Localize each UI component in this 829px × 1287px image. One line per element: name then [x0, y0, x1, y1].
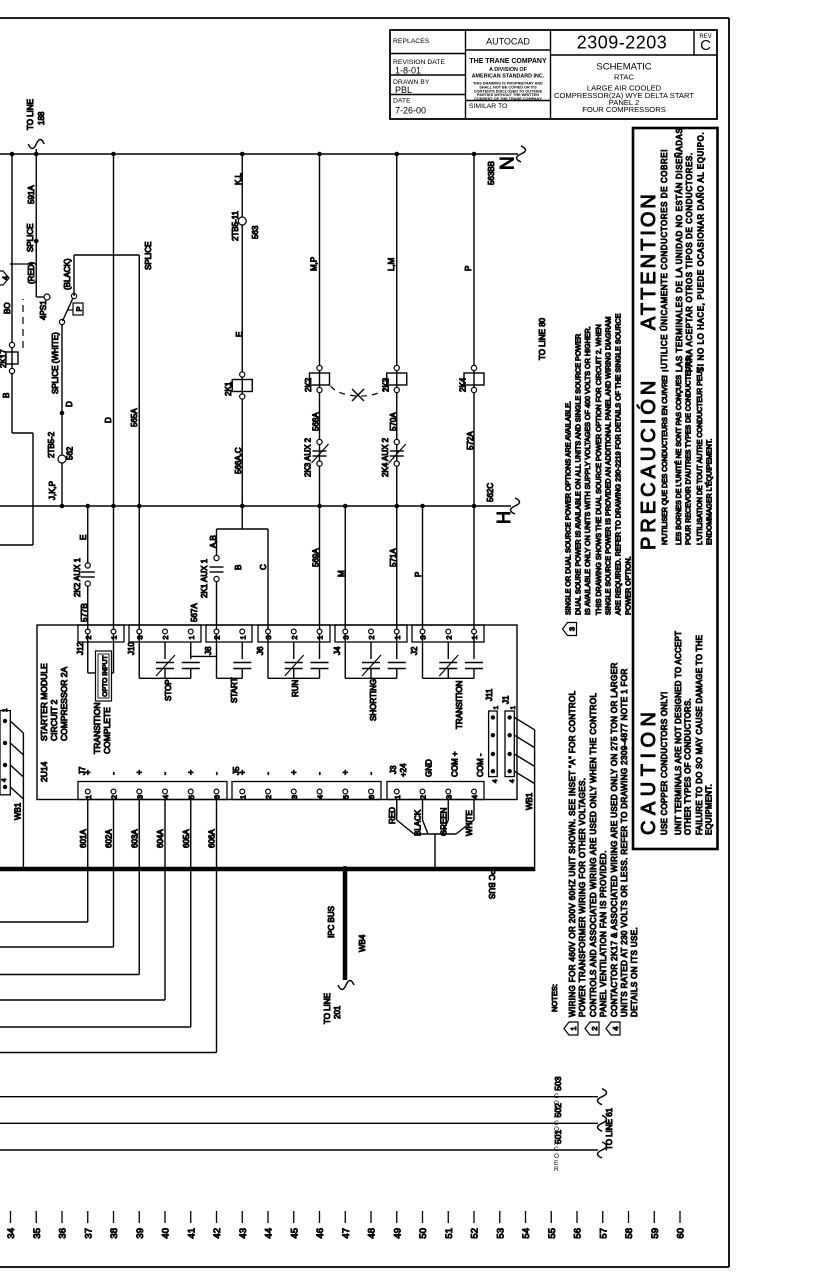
svg-text:SCHEMATIC: SCHEMATIC — [596, 62, 651, 73]
svg-text:AMERICAN STANDARD INC.: AMERICAN STANDARD INC. — [472, 74, 545, 80]
svg-text:C: C — [700, 37, 711, 54]
svg-text:SIMILAR TO: SIMILAR TO — [469, 103, 507, 110]
svg-text:2309-2203: 2309-2203 — [577, 33, 668, 53]
svg-text:A DIVISION OF: A DIVISION OF — [489, 67, 528, 73]
svg-text:REPLACES: REPLACES — [393, 38, 430, 45]
svg-text:7-26-00: 7-26-00 — [395, 106, 426, 116]
svg-text:DATE: DATE — [393, 98, 411, 105]
svg-text:RTAC: RTAC — [614, 73, 634, 82]
svg-text:AUTOCAD: AUTOCAD — [486, 37, 530, 47]
svg-text:THE TRANE COMPANY: THE TRANE COMPANY — [469, 58, 547, 65]
svg-text:FOUR COMPRESSORS: FOUR COMPRESSORS — [582, 105, 666, 114]
svg-text:PBL: PBL — [395, 85, 412, 95]
svg-text:CONSENT OF THE TRANE COMPANY: CONSENT OF THE TRANE COMPANY — [474, 97, 542, 101]
svg-text:1-8-01: 1-8-01 — [395, 66, 421, 76]
